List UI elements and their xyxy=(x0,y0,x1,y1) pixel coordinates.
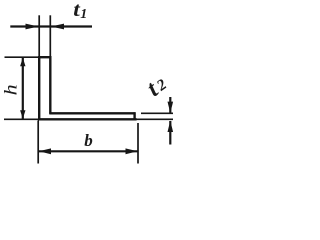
svg-text:b: b xyxy=(84,131,93,150)
svg-text:h: h xyxy=(1,84,21,95)
svg-text:1: 1 xyxy=(80,7,87,22)
